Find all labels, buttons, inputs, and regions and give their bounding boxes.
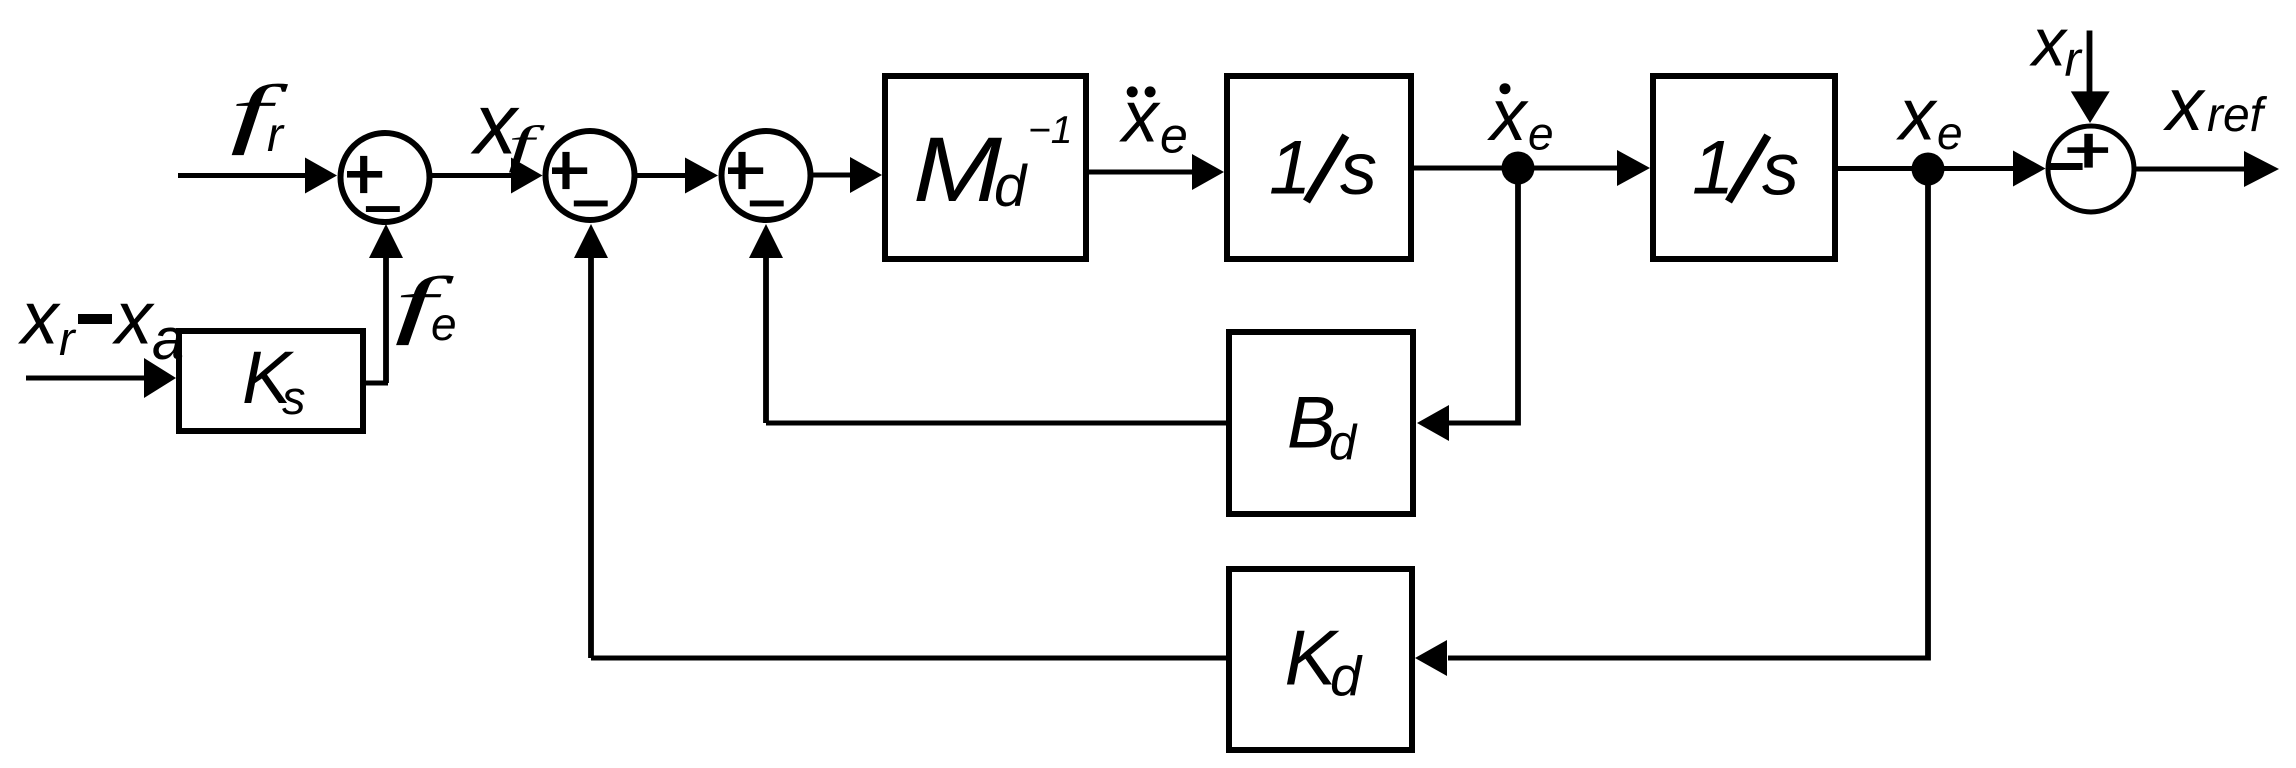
label xdot_e [1487, 75, 1554, 160]
svg-text:e: e [1528, 108, 1554, 160]
summing junction S2 [546, 131, 635, 220]
block integrator 1/s first [1227, 76, 1411, 259]
wire xdot_e down to Bd [1515, 168, 1521, 426]
block Kd [1229, 569, 1412, 750]
summing junction S4 [2048, 126, 2134, 212]
svg-text:−1: −1 [1028, 109, 1072, 152]
label x_r minus x_a [18, 276, 184, 373]
svg-text:d: d [1329, 416, 1358, 470]
svg-text:s: s [1340, 127, 1377, 210]
svg-text:r: r [267, 109, 285, 162]
wire into Kd right side [1415, 640, 1447, 676]
svg-text:x: x [1119, 77, 1161, 158]
block Md inverse [885, 76, 1086, 259]
wire input to Ks [26, 358, 176, 398]
wire into Bd right side [1417, 405, 1518, 441]
block Ks [179, 331, 363, 431]
summing junction S1 [341, 133, 430, 222]
label xddot_e [1119, 77, 1188, 164]
svg-text:d: d [1330, 645, 1363, 708]
svg-text:r: r [2065, 33, 2083, 87]
wire Kd output to S2 [574, 224, 1226, 661]
svg-text:f: f [508, 117, 546, 174]
wire x_e down to Kd [1448, 169, 1931, 661]
svg-text:x: x [1896, 75, 1938, 156]
summing junction S3 [722, 131, 811, 220]
wire S2 to S3 [635, 158, 718, 194]
svg-text:M: M [913, 119, 1002, 221]
wire x_ref output [2134, 151, 2279, 187]
svg-text:x: x [2029, 4, 2068, 80]
svg-text:e: e [431, 298, 457, 350]
label f_r [230, 69, 289, 163]
svg-text:x: x [18, 276, 61, 360]
node x_e [1912, 153, 1945, 186]
label x_r [2029, 4, 2083, 87]
node xdot_e [1502, 152, 1535, 185]
wire Bd output to S3 [749, 224, 1226, 426]
wire x_r input [2071, 31, 2110, 124]
wire Md to integrator1 [1089, 154, 1224, 190]
svg-text:d: d [994, 154, 1028, 219]
svg-text:s: s [282, 371, 306, 424]
wire integrator1 to integrator2 [1414, 150, 1650, 186]
wire integrator2 to S4 [1838, 151, 2046, 187]
svg-text:s: s [1762, 128, 1799, 211]
svg-text:x: x [2163, 62, 2206, 146]
block integrator 1/s second [1653, 76, 1835, 259]
wire f_r input [178, 158, 337, 194]
svg-text:r: r [59, 312, 77, 365]
wire Ks output f_e to S1 [366, 224, 403, 386]
svg-text:e: e [1937, 107, 1963, 159]
label x_e [1896, 75, 1963, 160]
block Bd [1229, 332, 1413, 514]
label x_f [470, 77, 546, 174]
wire S3 to Md [811, 157, 882, 193]
svg-text:x: x [1487, 75, 1529, 156]
label f_e [394, 262, 456, 350]
label x_ref [2163, 62, 2268, 146]
wire S1 to S2 [430, 158, 543, 194]
svg-text:x: x [112, 276, 155, 360]
svg-text:e: e [1160, 108, 1188, 164]
svg-text:ref: ref [2207, 89, 2268, 142]
